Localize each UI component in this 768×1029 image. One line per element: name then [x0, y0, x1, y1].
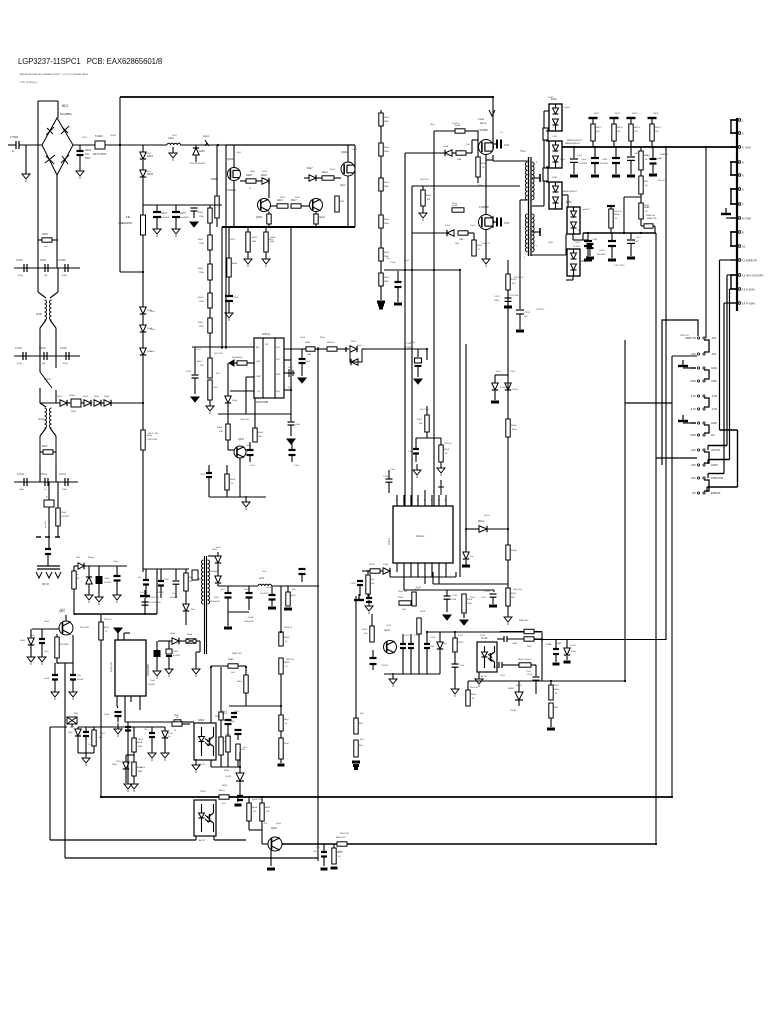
svg-text:R4x1: R4x1 [147, 435, 153, 437]
svg-text:R1x3 7k: R1x3 7k [482, 243, 491, 245]
svg-text:R4x1: R4x1 [198, 239, 204, 241]
svg-text:TL431: TL431 [225, 776, 232, 778]
svg-text:KA5Q0365: KA5Q0365 [147, 664, 150, 676]
svg-text:C6x9: C6x9 [266, 587, 272, 589]
svg-text:Txx250V: Txx250V [61, 516, 70, 518]
svg-text:C6x7: C6x7 [220, 589, 226, 591]
svg-text:C2X5: C2X5 [225, 734, 231, 736]
capacitor C1Y0 [507, 290, 509, 297]
connector CN2 bracket [704, 398, 709, 407]
capacitor C2X6 [235, 729, 242, 731]
diode D406 [304, 177, 309, 179]
current arrow GA401 [205, 140, 209, 146]
svg-text:ERROR: ERROR [711, 491, 720, 495]
svg-text:13 A-DIM: 13 A-DIM [742, 288, 755, 292]
svg-text:R6A9 20R: R6A9 20R [232, 652, 242, 655]
node mains junction x120 [119, 144, 121, 146]
svg-text:D4x7: D4x7 [307, 167, 313, 170]
svg-text:KIA31: KIA31 [508, 687, 515, 690]
svg-text:R2x0: R2x0 [444, 449, 450, 451]
svg-text:D6x1: D6x1 [216, 547, 222, 549]
svg-text:WF73-SD1S: WF73-SD1S [93, 153, 107, 156]
capacitor C mid2 [370, 657, 377, 659]
svg-text:6x1V: 6x1V [291, 595, 297, 597]
resistor R9A0 [640, 147, 642, 151]
svg-text:AL717: AL717 [481, 675, 488, 678]
resistor R1x5 1M [422, 186, 424, 190]
resistor R6x2b [333, 844, 335, 848]
connector CN1 pin 11 [730, 259, 737, 261]
svg-text:260V: 260V [71, 411, 77, 413]
svg-text:R4x3: R4x3 [322, 171, 328, 174]
svg-text:47u/50V: 47u/50V [173, 655, 181, 657]
svg-text:-3.3V: -3.3V [690, 394, 696, 398]
dual diode D1S1 [549, 104, 562, 131]
resistor R6A9 [211, 665, 228, 667]
connector CN1 pin 9 [730, 231, 737, 233]
relay RL101 [39, 356, 41, 372]
svg-text:D5x4: D5x4 [104, 396, 110, 398]
Y-cap row1 rail [14, 267, 80, 269]
wire gate node [471, 140, 473, 153]
svg-text:R413: R413 [277, 199, 283, 202]
svg-text:R6X5 10: R6X5 10 [286, 659, 295, 661]
capacitor C5s1 [145, 569, 147, 579]
svg-text:R1x4: R1x4 [470, 597, 476, 599]
wire x625 vertical [624, 340, 626, 680]
wire fb right vertical [541, 632, 543, 682]
wire ic bottom row3 [404, 589, 494, 591]
resistor R4A4 chain [208, 293, 212, 308]
svg-text:R1x6 1k: R1x6 1k [452, 123, 461, 125]
ground brk [85, 753, 87, 757]
resistor R2Y5 fb [506, 588, 510, 606]
ground IC502 [195, 760, 197, 764]
wire Q6x0 collector bus [282, 843, 337, 845]
wire IC600 left link [195, 836, 197, 840]
resistor R4B6 chain [379, 273, 383, 286]
zener D4x7 [142, 333, 144, 348]
svg-text:R4x9: R4x9 [232, 263, 238, 265]
svg-text:3 -24V: 3 -24V [742, 146, 751, 150]
svg-text:uM: uM [42, 363, 45, 365]
svg-text:NC: NC [711, 433, 715, 437]
svg-text:C4x2: C4x2 [581, 159, 587, 161]
svg-text:C7x07: C7x07 [484, 591, 491, 593]
wire x65 vertical long [64, 663, 66, 858]
IC501 pin6 ground [284, 372, 289, 374]
zener D4x8 [142, 315, 144, 325]
svg-text:TH4x1: TH4x1 [110, 135, 117, 137]
svg-text:470p: 470p [18, 275, 24, 277]
junction dots [119, 144, 121, 146]
capacitor CY15b [65, 352, 67, 360]
svg-text:R6x5: R6x5 [265, 807, 271, 809]
svg-text:R6X5: R6X5 [284, 662, 290, 664]
wire vcc rail722 [125, 721, 174, 723]
svg-text:RG6 1k: RG6 1k [327, 342, 335, 344]
capacitor CY15a [22, 352, 24, 360]
svg-text:47u/50V: 47u/50V [148, 684, 156, 686]
wire x666 vertical [665, 147, 667, 640]
svg-text:T1xx: T1xx [520, 149, 526, 153]
svg-text:R5x4: R5x4 [554, 689, 560, 691]
svg-text:D1x1: D1x1 [445, 225, 451, 227]
svg-text:R6x4: R6x4 [140, 767, 146, 769]
svg-text:R4x0: R4x0 [237, 357, 243, 359]
svg-text:wwRx: wwRx [564, 107, 571, 109]
wire x706 vertical [705, 147, 707, 338]
svg-text:R5x0: R5x0 [518, 659, 524, 661]
resistor R4x7 [209, 349, 211, 358]
resistor R2x4 [354, 740, 358, 757]
capacitor C6x8 [248, 586, 250, 592]
capacitor C4x9 [228, 277, 230, 295]
svg-text:R406: R406 [246, 174, 252, 177]
svg-text:R4x0: R4x0 [217, 427, 223, 429]
zener D4x6 [227, 363, 229, 396]
svg-text:D5x3: D5x3 [94, 396, 100, 398]
capacitor C1Y0b [357, 580, 363, 582]
capacitor C4Y3 bulk [175, 205, 177, 211]
svg-text:C1x2: C1x2 [404, 635, 410, 637]
svg-text:D4x5: D4x5 [150, 311, 156, 313]
wire base link [248, 821, 250, 830]
resistor R6X7 [280, 706, 282, 715]
connector CN1 pin 7 [730, 203, 737, 205]
svg-text:D1S1: D1S1 [551, 99, 557, 101]
connector CN1 bracket [731, 120, 737, 133]
resistor R6xxv [287, 586, 289, 592]
connector CN2 gnd T lower [682, 415, 684, 421]
resistor R6x0hv [185, 569, 187, 573]
zener D1xx mid [465, 344, 467, 552]
wire IC600 right link [213, 836, 215, 840]
capacitor C1Y6 [424, 643, 430, 645]
connector CN1 pin 10 [730, 245, 737, 247]
transistor Q1x3 [384, 641, 397, 654]
capacitor C1x blk [299, 568, 306, 570]
svg-text:PFC: PFC [265, 344, 270, 346]
resistor R1Y2 [454, 632, 456, 638]
Y-cap row3 rail [14, 481, 78, 483]
capacitor C4B1 [573, 147, 575, 158]
svg-text:2Dxxx: 2Dxxx [478, 520, 485, 523]
svg-text:-24V: -24V [691, 476, 697, 480]
resistor R5x6 fb [399, 601, 411, 605]
svg-text:GND: GND [711, 366, 717, 370]
svg-text:wwRxCT: wwRxCT [582, 209, 591, 211]
svg-text:MBRF20200CT: MBRF20200CT [565, 143, 581, 145]
IC501 pin2 resistor R4x0 [237, 361, 247, 365]
capacitor C1Yx [408, 643, 414, 645]
wire aux tee [495, 374, 508, 376]
svg-text:47u450V: 47u450V [180, 217, 189, 219]
svg-text:C401: C401 [85, 149, 92, 152]
svg-text:C1Y0: C1Y0 [350, 583, 356, 585]
svg-text:Q1x3: Q1x3 [384, 629, 390, 632]
dual diode D1S3 [549, 182, 562, 209]
connector CN1 bracket [731, 232, 737, 246]
ground chain x356 [352, 761, 360, 764]
svg-text:R1Y8: R1Y8 [511, 279, 517, 281]
wire x143 mid [142, 356, 144, 430]
svg-text:Rx: Rx [76, 574, 78, 576]
capacitor C6vcc2 [168, 641, 170, 649]
svg-text:1k: 1k [285, 723, 287, 725]
wire collector bus right [347, 843, 656, 845]
svg-text:COMP: COMP [255, 376, 261, 378]
resistor R9A6 [640, 197, 642, 203]
svg-text:R4x2: R4x2 [384, 147, 390, 149]
svg-text:-3.3V: -3.3V [711, 394, 717, 398]
wire x434 vertical [433, 131, 435, 506]
wire ic bottom row4 [403, 572, 405, 590]
connector CN2 bracket [704, 370, 709, 379]
wire bridge top feed [57, 101, 59, 118]
svg-text:10u/4V: 10u/4V [77, 679, 84, 681]
capacitor C6xb [323, 844, 325, 851]
svg-text:C6X5: C6X5 [229, 721, 235, 723]
diode row D5x2 [81, 402, 84, 404]
capacitor C1x0 aux [417, 349, 419, 357]
wire bridge left drop [37, 101, 39, 268]
svg-text:Q1x3: Q1x3 [386, 625, 392, 627]
wire CN2 INV link [708, 445, 727, 447]
connector CN1 pin 5 [730, 174, 737, 176]
wire x672 vertical [671, 356, 673, 797]
resistor R6x8m [133, 727, 135, 738]
connector CN1 pin 2 [730, 132, 737, 134]
svg-text:D4x1: D4x1 [146, 153, 152, 155]
connector CN1 pin 1 [730, 119, 737, 121]
capacitor C2x0 [498, 662, 500, 668]
resistor R1x0 lower gate [452, 208, 464, 212]
zener Z6x0 stby [30, 629, 32, 638]
resistor R4C6 [265, 227, 267, 232]
resistor R5x3 [467, 681, 469, 690]
wire y270 horizontal [384, 269, 460, 271]
svg-text:C1Y01: C1Y01 [381, 665, 388, 667]
svg-text:R9A0: R9A0 [644, 154, 650, 157]
svg-text:R1Y2: R1Y2 [458, 635, 464, 637]
svg-text:R4x1 1.4M: R4x1 1.4M [148, 433, 158, 435]
connector CN1 bracket [731, 189, 737, 204]
svg-text:CY15x: CY15x [15, 348, 23, 350]
svg-text:C6x8: C6x8 [244, 589, 250, 591]
svg-text:R4x1: R4x1 [198, 322, 204, 324]
svg-text:LGP3237-11SPC1 PCB: EAX62865: LGP3237-11SPC1 PCB: EAX62865601/8 [18, 57, 162, 66]
resistor R4B1 chain [379, 113, 383, 126]
svg-text:IC5Q1: IC5Q1 [262, 332, 271, 336]
PFC block right rail [354, 145, 356, 227]
wire ic top feeds [403, 495, 405, 506]
svg-text:C2A6: C2A6 [556, 642, 562, 645]
wire x318 vertical long [317, 347, 319, 861]
IC101 top pin 16 [396, 495, 398, 506]
svg-text:R6A9: R6A9 [228, 658, 234, 661]
ground under L401 [172, 147, 174, 152]
wire PFC verticals down [221, 227, 223, 349]
svg-text:C1x6: C1x6 [452, 595, 458, 597]
zener Z6x0 fb [439, 632, 441, 642]
wire packs left link [546, 130, 549, 132]
svg-text:R5Sx 4k7: R5Sx 4k7 [519, 620, 529, 622]
connector CN1 pin 6 [730, 188, 737, 190]
svg-text:R1Y8 510: R1Y8 510 [514, 277, 524, 279]
wire primary bottom [520, 199, 528, 201]
svg-text:IC600: IC600 [197, 796, 204, 799]
svg-text:14 P-DIM: 14 P-DIM [742, 302, 755, 306]
svg-text:R4x2: R4x2 [384, 277, 390, 279]
svg-text:C1x0: C1x0 [383, 476, 389, 478]
svg-text:100p: 100p [62, 489, 68, 491]
svg-text:Elements that are shaded mean: Elements that are shaded mean " + no y.O… [20, 72, 89, 76]
capacitor C3C2 [630, 147, 632, 156]
svg-text:Q1x1: Q1x1 [480, 121, 487, 125]
dual diode D1S4 [567, 207, 580, 234]
svg-text:4u7450V: 4u7450V [140, 592, 148, 594]
svg-text:K7A060D: K7A060D [478, 129, 488, 132]
IC501 pin1 wire [192, 346, 254, 348]
svg-text:2SC790B: 2SC790B [80, 627, 90, 629]
svg-text:4u7450V: 4u7450V [156, 592, 164, 594]
wire x508 vertical [507, 290, 509, 545]
svg-text:D5x5: D5x5 [168, 733, 174, 735]
svg-text:D1S1: D1S1 [548, 97, 554, 99]
svg-text:R4C5: R4C5 [230, 239, 236, 241]
svg-text:PWM-DIM: PWM-DIM [711, 476, 723, 480]
svg-text:BC790B: BC790B [60, 644, 69, 646]
svg-text:R6x2: R6x2 [42, 446, 48, 448]
svg-text:D4x8: D4x8 [150, 329, 156, 331]
svg-text:390u/35V: 390u/35V [597, 254, 606, 256]
IC101 bottom pin 8 [445, 563, 447, 572]
resistor R6X4 [280, 731, 282, 738]
svg-text:C4x5: C4x5 [250, 465, 256, 467]
transformer T6xx primary [202, 560, 204, 604]
resistor R9A1 [639, 176, 643, 194]
svg-text:Q401: Q401 [227, 157, 234, 161]
connector CN2 box [662, 320, 698, 465]
wire brk y753 [78, 752, 94, 754]
svg-text:-3.3V: -3.3V [690, 407, 696, 411]
choke LF1x1 [45, 408, 47, 428]
svg-text:IC600: IC600 [200, 791, 206, 793]
svg-text:-24V: -24V [691, 463, 697, 467]
svg-text:R6X6: R6X6 [284, 637, 290, 639]
wire ic bottom row1 [390, 576, 456, 578]
diode row D5x3 [94, 400, 101, 406]
svg-text:BYV26F/X4003: BYV26F/X4003 [190, 163, 206, 165]
capacitor C4x7 left [194, 347, 196, 374]
svg-text:D4S2: D4S2 [548, 242, 554, 244]
svg-text:Q402: Q402 [341, 150, 348, 154]
svg-text:ADIM: ADIM [711, 463, 717, 467]
diode D403 [180, 144, 226, 146]
wire fb bottom bus [468, 680, 625, 682]
wire drive rail to aux [366, 348, 384, 350]
capacitor C4x7b [206, 472, 212, 474]
resistor R403 [322, 176, 334, 180]
svg-text:-24V: -24V [691, 448, 697, 452]
diode D6x9 [158, 640, 172, 642]
capacitor C5s3 [175, 569, 177, 580]
wire pack5 bottom [572, 276, 574, 280]
svg-text:C1x6: C1x6 [451, 599, 457, 601]
svg-text:C6X5: C6X5 [234, 711, 240, 713]
svg-text:R1x0: R1x0 [452, 203, 458, 205]
svg-text:GND: GND [690, 379, 696, 383]
wire bottom rail a [50, 839, 196, 841]
svg-text:CY1x1: CY1x1 [59, 474, 67, 476]
zener D1xk [494, 375, 496, 383]
resistor R4A1 chain [208, 208, 212, 223]
fuse F1 [142, 205, 144, 215]
connector CN1 pin 13 [730, 288, 737, 290]
svg-text:L6x1: L6x1 [259, 578, 265, 580]
ground chain B [377, 301, 385, 304]
svg-text:TH401: TH401 [95, 134, 103, 138]
svg-text:LF1x1: LF1x1 [38, 419, 45, 421]
resistor R1x3 lower [473, 233, 475, 240]
transistor Q403 [258, 199, 271, 212]
wire pin7 to x318 [317, 346, 319, 348]
svg-text:R4x2: R4x2 [384, 182, 390, 184]
capacitor CY1x1 [64, 478, 66, 486]
resistor R0 standby [73, 566, 75, 571]
svg-text:Q4x1: Q4x1 [236, 152, 242, 154]
capacitor CY1x2 [23, 478, 25, 486]
svg-text:D1xG: D1xG [512, 389, 518, 391]
svg-text:OVP: OVP [256, 361, 261, 363]
IC101 bottom pin 1 [396, 563, 398, 572]
svg-text:200xp: 200xp [88, 557, 95, 559]
svg-text:ZCD: ZCD [276, 391, 281, 393]
svg-text:R6x0 470: R6x0 470 [340, 833, 350, 835]
svg-text:1000u/10V: 1000u/10V [244, 621, 254, 623]
resistor R1x4 fb [462, 594, 466, 613]
capacitor pol mid [368, 592, 370, 598]
resistor R413 [277, 204, 288, 208]
wire standby in row [84, 565, 127, 567]
wire top bus PFC [120, 96, 493, 98]
svg-text:IC6Q1 CK: IC6Q1 CK [111, 661, 113, 672]
capacitor C5xx [116, 566, 118, 575]
wire Q6x0 emitter [270, 850, 272, 866]
svg-text:R4x4 5k: R4x4 5k [614, 211, 623, 213]
svg-text:NC: NC [692, 491, 696, 495]
svg-text:R6x1: R6x1 [222, 711, 228, 713]
resistor R5S9 [524, 629, 534, 633]
wire secondary top out [532, 205, 544, 207]
wire aux y438 [426, 432, 428, 438]
diode D6x1 [208, 555, 218, 557]
svg-text:C4x9: C4x9 [233, 297, 239, 299]
wire Q103 source gnd [485, 230, 487, 258]
resistor R1x5 j [367, 570, 369, 575]
svg-text:R5x: R5x [241, 749, 245, 751]
svg-text:24M: 24M [457, 159, 461, 161]
wire ic pin drops [431, 572, 433, 577]
svg-text:BD1: BD1 [62, 104, 68, 108]
resistor R4x4 [610, 206, 612, 209]
capacitor C4Y2 bulk [156, 205, 158, 211]
svg-text:R4x7 20k: R4x7 20k [214, 353, 224, 355]
wire bridge bottom drop [56, 175, 58, 268]
resistor R6x6 stby [56, 634, 58, 637]
svg-text:C6x7: C6x7 [214, 597, 220, 599]
